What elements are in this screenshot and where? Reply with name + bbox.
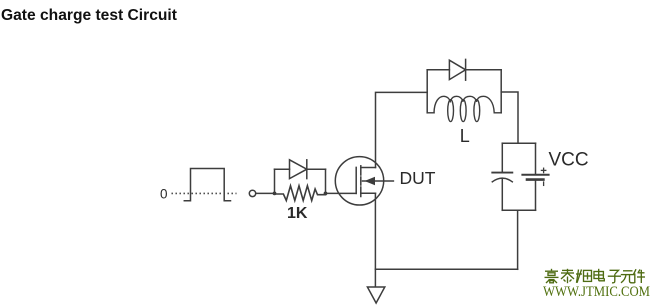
wire VCC box bottom bar: [502, 209, 535, 211]
char 姆: [576, 270, 592, 283]
wire VCC down: [517, 210, 519, 269]
watermark line 1 Chinese 嘉泰姆电子元件: [545, 269, 646, 283]
wire top-left vertical of parallel LC: [426, 70, 428, 113]
inductor L1: [427, 96, 501, 121]
svg-text:L: L: [460, 126, 470, 146]
input terminal: [249, 190, 255, 196]
wire bottom return: [375, 268, 517, 270]
capacitor C1: [492, 143, 512, 210]
wire source down: [374, 193, 376, 287]
wire terminal to node A: [256, 192, 275, 194]
diode D2: [427, 59, 501, 80]
node B junction dot: [324, 192, 328, 196]
char 子: [608, 270, 621, 283]
svg-text:0: 0: [160, 186, 168, 201]
wire parallel-left vertical: [274, 169, 276, 193]
svg-text:Gate charge test Circuit: Gate charge test Circuit: [1, 7, 177, 24]
resistor R1 1K: [275, 186, 326, 201]
wire top-right vertical of parallel LC: [500, 70, 502, 113]
wire parallel-right vertical: [325, 169, 327, 193]
diode D1: [275, 160, 326, 179]
char 元: [621, 271, 635, 283]
node A junction dot: [273, 192, 277, 196]
char 件: [633, 269, 645, 283]
wire gate: [326, 192, 357, 194]
svg-text:WWW.JTMIC.COM: WWW.JTMIC.COM: [543, 284, 650, 300]
wire VCC box top bar: [502, 142, 535, 144]
svg-text:DUT: DUT: [400, 168, 436, 188]
svg-text:VCC: VCC: [549, 150, 589, 171]
pulse waveform: [172, 169, 237, 201]
char 泰: [561, 269, 574, 283]
battery VCC source: [522, 143, 548, 210]
char 嘉: [545, 269, 559, 283]
transistor Q1 DUT (N-MOSFET): [335, 157, 393, 205]
wire drain up and over: [376, 92, 428, 167]
svg-text:1K: 1K: [287, 205, 308, 222]
ground: [367, 287, 384, 303]
wire LC to VCC branch: [501, 92, 518, 143]
char 电: [594, 269, 604, 281]
